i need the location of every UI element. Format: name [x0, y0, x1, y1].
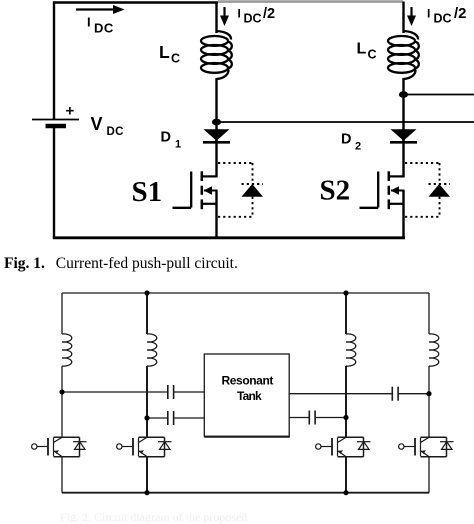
diode D2: [391, 129, 417, 141]
switch Q3: [316, 437, 371, 456]
svg-text:V: V: [91, 114, 103, 134]
svg-text:Resonant: Resonant: [222, 374, 274, 388]
S1 body diode: triangle: [242, 184, 264, 197]
svg-text:D: D: [341, 132, 351, 148]
svg-text:L: L: [357, 41, 367, 58]
wire: right branch from rail to coil: [402, 2, 404, 34]
transistor S2: drain wire: [402, 140, 404, 177]
wire: right branch coil to node: [402, 78, 404, 96]
switch Q4: [399, 437, 454, 456]
svg-text:Fig. 2. Circuit diagram of t: Fig. 2. Circuit diagram of the proposed: [60, 510, 247, 524]
node bottom rail leg3: [343, 490, 348, 495]
fig2 inductor 1: [62, 334, 72, 366]
fig2 wire leg2 upper: [146, 293, 148, 334]
svg-text:DC: DC: [244, 11, 262, 25]
node top rail leg2: [144, 290, 149, 295]
svg-text:D: D: [161, 130, 171, 146]
inductor L_C (right): four turns: [388, 36, 415, 46]
fig2 inductor 3: [346, 334, 356, 366]
top rail (left black segment): [53, 1, 218, 4]
svg-text:S2: S2: [320, 175, 351, 207]
arrow I_DC/2 (right branch): [410, 7, 412, 19]
inductor L_C (right): right-side loops: [415, 42, 419, 69]
transistor S1: gate lead: [173, 207, 192, 209]
S1 body diode: cathode bar: [242, 183, 264, 185]
fig2 wire leg1 lower: [61, 457, 63, 493]
capacitor upper-right: [391, 387, 393, 401]
S2 body diode: cathode bar: [429, 183, 451, 185]
inductor L_C (right): exit curl: [404, 69, 416, 80]
node leg4 upper-right: [426, 391, 431, 396]
fig2 wire leg2 lower: [146, 457, 148, 493]
svg-text:I: I: [238, 7, 241, 21]
wire: node to D2: [402, 95, 404, 144]
capacitor lower-left: [167, 411, 169, 425]
svg-text:C: C: [171, 52, 180, 66]
bottom rail of fig1: [53, 236, 405, 239]
svg-text:2: 2: [355, 141, 361, 153]
transistor S2: gate lead: [360, 207, 379, 209]
svg-text:I: I: [87, 15, 91, 30]
transistor S2: gate bar: [377, 172, 379, 208]
svg-text:+: +: [66, 103, 75, 120]
transistor S2: channel segments: [388, 171, 391, 181]
S2 body diode dotted box: right lower: [439, 197, 441, 217]
svg-text:Tank: Tank: [237, 389, 262, 403]
node: junction dot left branch: [212, 119, 221, 126]
diode D1: [204, 129, 230, 141]
transistor S1: gate bar: [190, 172, 192, 208]
fig2 wire leg1 upper: [61, 293, 63, 334]
fig2 wire leg2 mid: [146, 366, 148, 437]
transistor S2: body stub with arrow: [391, 190, 405, 192]
fig2 top rail: [62, 292, 429, 294]
fig2 switch cells: [32, 437, 454, 456]
S2 body diode dotted box: top: [405, 162, 440, 164]
transistor S2: source stub: [389, 203, 405, 205]
svg-text:Fig. 1. Current-fed push-pull: Fig. 1. Current-fed push-pull circuit.: [4, 255, 238, 272]
arrow I_DC/2 (left branch): [223, 7, 225, 19]
fig2 wire leg3 upper: [345, 293, 347, 334]
transistor S1: body stub with arrow: [204, 190, 218, 192]
S2 body diode dotted box: right upper: [439, 163, 441, 184]
S2 body diode dotted box: bottom: [405, 216, 440, 218]
svg-text:1: 1: [175, 139, 181, 151]
fig2 wire leg4 mid: [428, 366, 430, 437]
svg-text:L: L: [159, 42, 170, 62]
S1 body diode dotted box: bottom: [218, 216, 253, 218]
transistor S1: source wire down: [215, 191, 217, 239]
inductor L_C (left): four turns: [201, 36, 228, 46]
fig2 wire leg4 upper: [428, 293, 430, 334]
svg-text:DC: DC: [94, 21, 114, 36]
svg-text:DC: DC: [107, 126, 124, 138]
inductor L_C (left): entry curl: [217, 31, 232, 40]
battery V_DC short thick plate: [46, 124, 67, 129]
fig2 inductor 4: [429, 334, 439, 366]
top rail (right gray segment): [218, 0, 403, 3]
transistor S1: drain stub: [202, 175, 218, 177]
svg-text:I: I: [427, 7, 430, 21]
svg-text:S1: S1: [132, 176, 163, 208]
fig2 wire leg3 lower: [345, 457, 347, 493]
node leg1 upper-left: [59, 389, 64, 394]
wire: left branch from rail to coil: [215, 2, 217, 34]
switch Q1: [32, 437, 87, 456]
fig2 wire upper-left to tank: [62, 391, 168, 393]
inductor L_C (left): exit curl: [217, 69, 229, 80]
arrow I_DC: [76, 8, 117, 10]
node bottom rail leg2: [144, 490, 149, 495]
fig2 wire leg4 lower: [428, 457, 430, 493]
fig2 wire upper-right to leg4: [289, 393, 392, 395]
S1 body diode dotted box: top: [218, 162, 253, 164]
S2 body diode: triangle: [429, 184, 451, 197]
transistor S2: source wire down: [402, 191, 404, 239]
fig2 wire lower-right to leg3: [289, 417, 309, 419]
transistor S1: source stub: [202, 203, 218, 205]
resonant tank box: [204, 354, 289, 436]
capacitor upper-left: [167, 385, 169, 399]
capacitor lower-right: [308, 411, 310, 425]
svg-text:/2: /2: [263, 6, 275, 22]
inductor L_C (left): right-side loops: [228, 42, 232, 69]
battery V_DC long plate: [32, 119, 79, 121]
inductor L_C (right): entry curl: [404, 31, 419, 40]
svg-text:/2: /2: [454, 5, 467, 22]
wire: node to D1: [215, 122, 217, 143]
svg-text:DC: DC: [434, 11, 452, 25]
fig2 bottom rail: [62, 492, 429, 494]
transistor S1: channel segments: [201, 171, 204, 181]
transistor S1: drain wire: [215, 140, 217, 177]
fig2 wire lower-left to tank: [147, 417, 168, 419]
wire: left branch coil to node: [215, 78, 217, 124]
node top rail leg3: [343, 290, 348, 295]
wire: left vertical from rail to battery: [53, 2, 55, 120]
fig2 node dots: [59, 290, 431, 495]
node leg2 lower-left: [144, 415, 149, 420]
fig2 inductor 2: [147, 334, 157, 366]
S1 body diode dotted box: right upper: [252, 163, 254, 184]
switch Q2: [117, 437, 172, 456]
fig2 wire leg3 mid: [345, 366, 347, 437]
svg-text:C: C: [368, 48, 377, 62]
wire: left vertical from battery to bottom rail: [53, 126, 55, 238]
wire: long horizontal to transformer (right edge): [217, 121, 474, 123]
fig2 wire leg1 mid: [61, 366, 63, 437]
node: junction dot right branch: [399, 91, 408, 98]
transistor S2: drain stub: [389, 175, 405, 177]
node leg3 lower-right: [343, 415, 348, 420]
S1 body diode dotted box: right lower: [252, 197, 254, 217]
wire: horizontal to transformer upper (right edge): [404, 94, 474, 96]
